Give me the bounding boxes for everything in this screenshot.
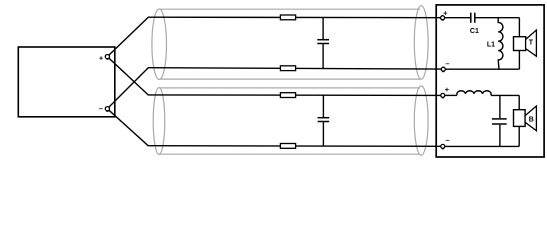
bottom cable left ellipse (153, 88, 165, 155)
svg-text:C1: C1 (470, 28, 479, 35)
capacitor bottom-cable shunt (318, 95, 330, 146)
node: tweeter - terminal (441, 67, 445, 71)
bottom cable right ellipse (414, 86, 428, 155)
wire: woofer drop top (518, 95, 520, 109)
top cable left ellipse (152, 9, 167, 79)
svg-text:T: T (529, 39, 534, 46)
svg-text:L1: L1 (487, 42, 495, 49)
resistor R top-cable hot (280, 15, 295, 20)
svg-text:+: + (443, 9, 448, 18)
wire: amp - to top cable return (109, 68, 148, 107)
bottom cable shield bottom line (160, 153, 420, 155)
amp terminal + (105, 55, 109, 59)
wire: amp + to bottom cable hot (109, 58, 148, 95)
svg-text:–: – (445, 136, 449, 145)
inductor L1 (498, 18, 503, 69)
resistor R bottom-cable hot (280, 93, 295, 98)
resistor R top-cable return (280, 66, 295, 71)
node: woofer - terminal (441, 144, 445, 148)
wire: woofer + to L2 (445, 94, 457, 96)
wire: C1 to tweeter node (475, 17, 519, 19)
amp terminal - (105, 107, 109, 111)
speaker B driver (514, 110, 526, 127)
wire: tweeter - return (445, 68, 519, 70)
wire: bottom cable return conductor (148, 145, 441, 148)
svg-text:B: B (529, 116, 534, 123)
speaker T cone (526, 30, 537, 56)
svg-text:+: + (99, 53, 104, 62)
speaker B cone (525, 106, 536, 131)
inductor L2 series (457, 91, 491, 96)
wire: top cable hot conductor (148, 16, 441, 19)
wire: tweeter drop top (518, 18, 520, 37)
amplifier box (18, 47, 115, 117)
wire: woofer drop bottom (518, 126, 520, 146)
bottom cable shield top line (160, 87, 420, 89)
wire: L2 to woofer node (491, 94, 519, 96)
wire: top cable return conductor (148, 68, 441, 69)
svg-text:–: – (445, 59, 449, 68)
wire: amp + to top cable hot (109, 17, 148, 55)
top cable shield bottom line (160, 78, 420, 80)
wire: bottom cable hot conductor (148, 94, 441, 97)
top cable right ellipse (414, 6, 428, 80)
terminal nubs (106, 19, 444, 149)
node: woofer + terminal (441, 93, 445, 97)
top cable shield top line (160, 8, 420, 10)
capacitor C1 (471, 13, 475, 23)
capacitor C2 shunt (492, 95, 507, 146)
resistor R bottom-cable return (280, 144, 295, 149)
wire: tweeter drop bottom (518, 51, 520, 70)
wire: tweeter + to C1 (445, 17, 471, 19)
svg-text:+: + (445, 85, 450, 94)
svg-text:–: – (99, 104, 103, 113)
wire: amp - to bottom cable return (109, 110, 148, 146)
node: tweeter + terminal (441, 16, 445, 20)
wire: woofer - return (445, 145, 519, 147)
speaker T driver (514, 37, 526, 51)
crossover enclosure box (436, 5, 544, 157)
capacitor top-cable shunt (317, 17, 329, 68)
